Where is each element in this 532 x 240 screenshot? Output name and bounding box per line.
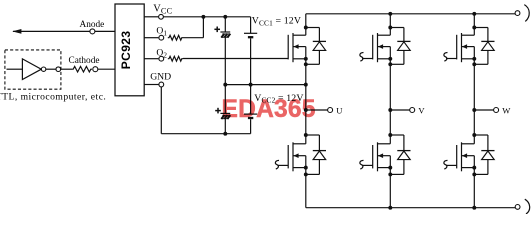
- node junction C2 bottom rail: [223, 132, 227, 136]
- wire cathode to PC923: [98, 68, 115, 70]
- label O2: [156, 47, 167, 59]
- node junction top bus phase W: [472, 12, 476, 16]
- node cathode terminal: [93, 67, 98, 72]
- svg-text:V: V: [418, 105, 425, 115]
- node junction U on phase leg: [304, 108, 308, 112]
- wire Q2 gate lead: [278, 164, 289, 166]
- node anode terminal: [90, 29, 95, 34]
- label C2 plus: [215, 108, 221, 114]
- battery B1 VCC1 12V: [244, 17, 257, 37]
- transistor Q6: [457, 142, 477, 171]
- transistor Q1: [288, 33, 308, 62]
- wire Q6 drain to output node: [473, 110, 475, 144]
- wire top bus: [306, 13, 515, 15]
- wire O2 to Q1 gate: [183, 58, 288, 60]
- transistor Q4: [373, 142, 393, 171]
- node Q4 gate continuation squiggle: [360, 160, 364, 169]
- node W terminal: [494, 108, 499, 113]
- diode D (Q4 body diode): [388, 133, 410, 176]
- label V: [418, 105, 425, 115]
- node junction cap C1 mid rail: [223, 83, 227, 87]
- pin GND of U1: [144, 84, 159, 86]
- wire Q3 gate lead: [362, 58, 373, 60]
- wire Q4 source to bottom bus: [389, 168, 391, 208]
- wire Q5 drain to top bus: [473, 14, 475, 35]
- svg-text:TTL, microcomputer, etc.: TTL, microcomputer, etc.: [0, 91, 106, 102]
- wire B1 to mid rail: [250, 38, 252, 84]
- wire anode line with arrow: [12, 29, 115, 34]
- wire Q1 drain to top bus: [305, 14, 307, 35]
- wire Q5 gate lead: [446, 58, 457, 60]
- node junction mid rail to Q1 source: [304, 83, 308, 87]
- wire inverter output: [46, 68, 56, 70]
- svg-text:U: U: [336, 105, 343, 115]
- node O2 terminal: [159, 56, 164, 61]
- wire VCC rail: [163, 16, 250, 18]
- capacitor C2 (electrolytic, VCC2): [220, 85, 230, 119]
- label C1 plus: [214, 27, 220, 33]
- diode D (Q6 body diode): [472, 133, 494, 176]
- label GND: [150, 72, 171, 83]
- wire output V: [390, 109, 409, 111]
- wire DC- continuation arc: [525, 199, 530, 214]
- node junction top bus phase V: [388, 12, 392, 16]
- resistor R1 (cathode series): [72, 66, 92, 72]
- diode D (Q3 body diode): [388, 26, 410, 67]
- resistor R3 (O2 gate drive): [168, 56, 183, 61]
- wire C1 to mid rail: [224, 37, 226, 84]
- wire output W: [474, 109, 493, 111]
- wire GND down: [160, 87, 162, 134]
- diode D (Q2 body diode): [304, 133, 326, 176]
- node O1 terminal: [159, 35, 164, 40]
- wire GND bottom rail: [161, 133, 250, 135]
- label Cathode: [69, 56, 100, 66]
- wire C2 to bottom rail: [224, 119, 226, 134]
- wire Q4 gate lead: [362, 164, 373, 166]
- transistor Q3: [373, 33, 393, 62]
- pin VCC of U1: [144, 16, 158, 18]
- svg-text:EDA365: EDA365: [222, 96, 316, 123]
- gate U2 inverter: [7, 59, 46, 80]
- label Anode: [80, 20, 105, 30]
- node junction V on phase leg: [388, 108, 392, 112]
- node junction bottom bus phase W: [472, 206, 476, 210]
- node junction C1 cap on VCC rail: [223, 15, 227, 19]
- node V terminal: [410, 108, 415, 113]
- wire Q6 source to bottom bus: [473, 168, 475, 208]
- wire to series resistor: [61, 68, 72, 70]
- watermark EDA365: [222, 96, 316, 123]
- node junction W on phase leg: [472, 108, 476, 112]
- wire Q3 source down: [389, 59, 391, 110]
- node DC+ terminal: [515, 11, 520, 16]
- wire Q3 drain to top bus: [389, 14, 391, 35]
- transistor Q2: [288, 142, 308, 171]
- node Q2 gate continuation squiggle: [275, 160, 279, 169]
- wire O1 to VCC rail: [183, 17, 203, 38]
- node Q6 gate continuation squiggle: [444, 160, 448, 169]
- label VCC2 = 12V: [254, 93, 303, 105]
- svg-text:W: W: [502, 105, 511, 115]
- signal source box (dashed): [5, 50, 61, 89]
- wire DC+ continuation arc: [524, 5, 529, 22]
- wire bottom bus: [306, 207, 515, 209]
- label U: [336, 105, 343, 115]
- label O1: [156, 26, 167, 38]
- op-amp U1 PC923 photocoupler: [115, 4, 144, 96]
- node DC- terminal: [515, 205, 520, 210]
- battery B2 VCC2 12V: [244, 85, 257, 118]
- pin O2 of U1: [144, 58, 158, 60]
- wire Q6 gate lead: [446, 164, 457, 166]
- wire output U: [306, 109, 328, 111]
- node junction bottom bus phase V: [388, 206, 392, 210]
- label VCC1 = 12V: [252, 15, 301, 27]
- diode D (Q5 body diode): [472, 26, 494, 67]
- wire Q4 drain to output node: [389, 110, 391, 144]
- svg-text:PC923: PC923: [119, 31, 133, 70]
- wire B2 to bottom rail: [250, 119, 252, 134]
- node VCC terminal: [159, 14, 164, 19]
- wire mid rail: [225, 84, 305, 86]
- wire Q5 source down: [473, 59, 475, 110]
- resistor R2 (O1): [168, 35, 183, 40]
- wire Q2 source to bottom bus: [305, 168, 307, 208]
- node U terminal: [328, 108, 333, 113]
- wire Q1 source down: [305, 59, 307, 110]
- node junction O1 pull-up on VCC rail: [201, 15, 205, 19]
- diode D (Q1 body diode): [304, 26, 326, 67]
- node junction battery mid rail: [249, 83, 253, 87]
- node GND terminal: [159, 82, 164, 87]
- svg-text:Anode: Anode: [80, 20, 105, 30]
- label VCC: [153, 3, 172, 15]
- wire Q2 drain to output node: [305, 110, 307, 144]
- label TTL, microcomputer, etc.: [0, 91, 106, 102]
- label W: [502, 105, 511, 115]
- capacitor C1 (electrolytic, VCC1): [220, 17, 230, 38]
- svg-text:GND: GND: [150, 72, 171, 83]
- transistor Q5: [457, 33, 477, 62]
- node Q5 gate continuation squiggle: [444, 53, 448, 62]
- node cathode box terminal: [56, 67, 61, 72]
- node Q3 gate continuation squiggle: [360, 53, 364, 62]
- svg-text:Cathode: Cathode: [69, 56, 100, 66]
- pin O1 of U1: [144, 37, 158, 39]
